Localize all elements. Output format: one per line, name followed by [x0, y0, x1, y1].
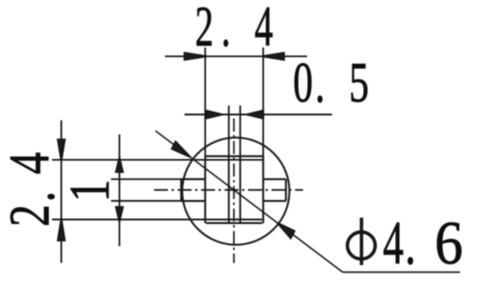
- arm ext line bottom (y=200.9): [111, 200, 205, 202]
- svg-text:.: .: [3, 191, 67, 202]
- slit line right through bar: [239, 156, 241, 223]
- svg-text:1: 1: [59, 179, 122, 202]
- extension line left (x=205.3): [204, 48, 206, 157]
- svg-text:6: 6: [435, 210, 463, 277]
- 0.5 right arrow: [247, 111, 264, 119]
- left 2.4 bottom arrow: [58, 219, 65, 241]
- circle phi 4.6: [182, 138, 289, 245]
- top dimension line 2.4: [165, 55, 307, 57]
- left inner dimension line 1 (x=119.4): [118, 134, 120, 246]
- svg-text:.: .: [221, 0, 230, 58]
- right arm cap: [285, 179, 287, 201]
- text: left 2.4 rotated: [0, 152, 67, 226]
- svg-text:5: 5: [349, 51, 369, 115]
- text: 4.6: [383, 210, 463, 278]
- slit line left through bar: [228, 156, 230, 223]
- svg-text:0: 0: [293, 51, 313, 115]
- text: 0.5: [293, 51, 369, 115]
- vertical bar bottom edge: [206, 222, 262, 224]
- left arm bottom: [181, 200, 205, 202]
- svg-text:2: 2: [195, 0, 214, 58]
- left arm top: [181, 178, 205, 180]
- diameter leader diagonal: [156, 131, 343, 272]
- svg-text:.: .: [405, 211, 416, 278]
- right arm bottom: [263, 200, 286, 202]
- text: 1 rotated: [59, 179, 122, 202]
- slit extension line right (x=240.2): [239, 106, 241, 157]
- vertical centerline: [233, 119, 235, 264]
- leader arrow upper: [172, 142, 191, 158]
- svg-text:4: 4: [0, 152, 62, 174]
- extension line right (x=263.2): [262, 48, 264, 157]
- inner top arrow: [116, 158, 123, 173]
- leader arrow lower: [278, 223, 295, 238]
- top dim right arrow: [262, 53, 284, 60]
- 0.5 left arrow: [206, 111, 223, 119]
- svg-text:2: 2: [0, 204, 62, 226]
- cross: vertical bar left edge: [204, 156, 206, 223]
- left outer dimension line 2.4 (x=61.3): [60, 120, 62, 263]
- left ext line bottom (y=219.5): [52, 219, 262, 221]
- vertical bar top edge: [205, 155, 263, 157]
- left 2.4 top arrow: [58, 140, 65, 161]
- 0.5 dimension line: [185, 114, 333, 116]
- slit extension line left (x=228.8): [228, 106, 230, 157]
- vertical bar right edge: [262, 156, 264, 223]
- horizontal centerline: [154, 189, 303, 191]
- right arm top: [263, 178, 286, 180]
- svg-text:.: .: [315, 51, 325, 115]
- inner bottom arrow: [116, 207, 123, 222]
- top dim left arrow: [185, 53, 207, 60]
- leader underline: [343, 271, 460, 273]
- arm ext line top (y=179.2): [111, 178, 205, 180]
- svg-text:4: 4: [255, 0, 274, 58]
- left arm cap: [180, 179, 182, 201]
- phi symbol: [347, 232, 375, 259]
- svg-text:4: 4: [383, 211, 404, 278]
- text: top 2.4: [195, 0, 273, 58]
- left ext line top (y=159.8): [52, 159, 263, 161]
